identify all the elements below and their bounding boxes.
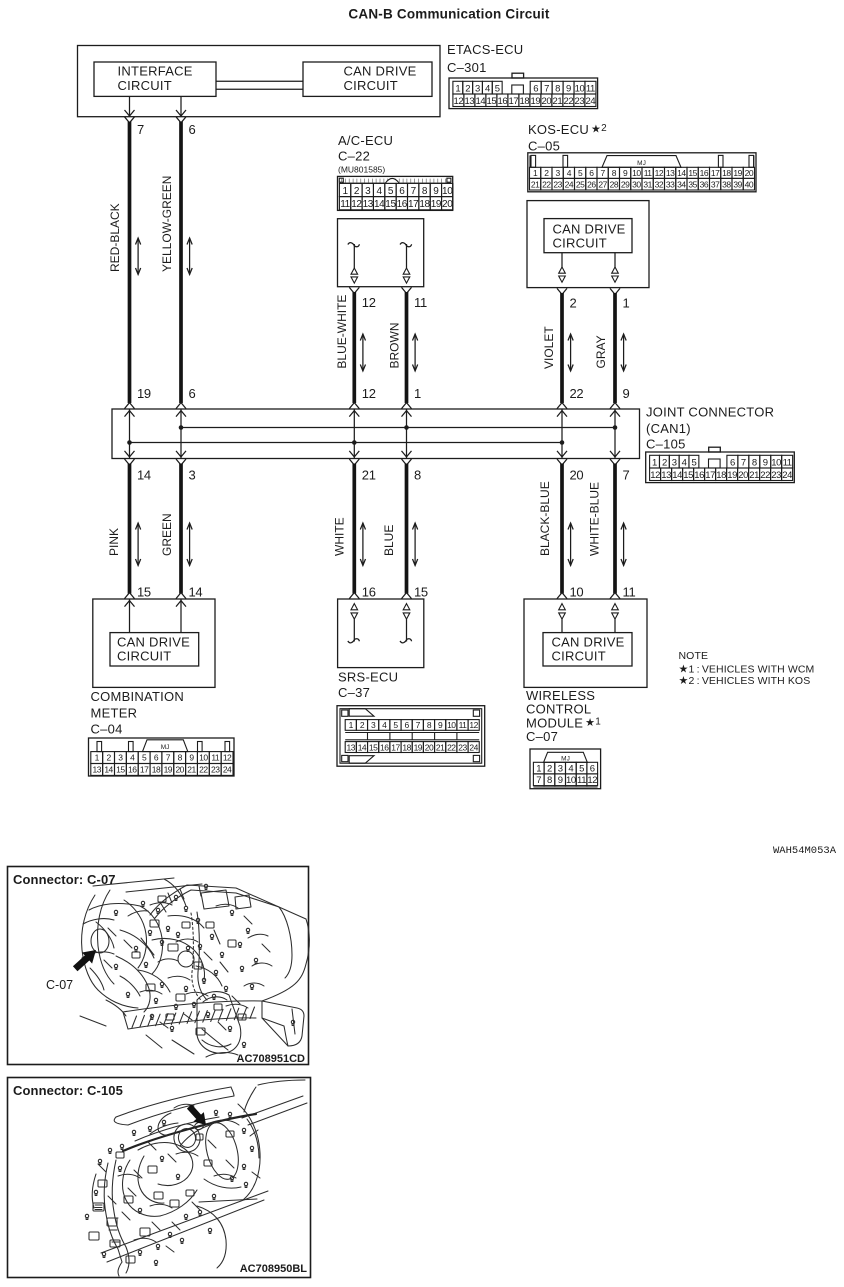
svg-text:18: 18 — [402, 742, 411, 752]
svg-text:9: 9 — [433, 186, 439, 197]
svg-text:CIRCUIT: CIRCUIT — [344, 78, 398, 93]
pin 21 (joint connector bottom) — [349, 459, 375, 483]
connector C-105 pin grid — [646, 447, 795, 482]
svg-text:WHITE-BLUE: WHITE-BLUE — [588, 482, 602, 556]
connector C-04 pin grid — [89, 738, 235, 776]
svg-text:8: 8 — [547, 775, 552, 786]
CAN bus line 1 (inside joint connector) — [179, 425, 618, 430]
svg-text:8: 8 — [422, 186, 428, 197]
svg-text:INTERFACE: INTERFACE — [118, 64, 193, 79]
svg-text:15: 15 — [369, 742, 378, 752]
photo panel Connector: C-105 — [8, 1078, 311, 1278]
svg-text:40: 40 — [745, 179, 754, 189]
termination symbol inside A/C-ECU (11) — [400, 243, 412, 283]
wire into combination meter CAN drive — [176, 599, 186, 633]
svg-text:BROWN: BROWN — [387, 323, 401, 369]
svg-text:5: 5 — [579, 763, 584, 774]
twisted-pair arrow (YELLOW-GREEN) — [187, 238, 192, 275]
svg-text:20: 20 — [175, 765, 184, 775]
CAN drive circuit block (KOS) — [544, 219, 632, 253]
wire label GRAY — [594, 335, 608, 368]
wire GRAY (upper run) — [613, 293, 617, 403]
svg-text:C–05: C–05 — [528, 139, 560, 154]
termination symbol inside A/C-ECU (12) — [348, 243, 360, 283]
svg-text:6: 6 — [730, 457, 735, 468]
wire BLACK-BLUE (lower run) — [560, 464, 564, 594]
wire through joint connector (1 to 8) — [402, 409, 412, 459]
ECU box A/C-ECU — [338, 219, 424, 287]
svg-text:22: 22 — [542, 179, 551, 189]
svg-text:6: 6 — [533, 83, 538, 94]
svg-text:26: 26 — [587, 179, 596, 189]
wire label BLUE-WHITE — [335, 295, 349, 369]
svg-text:4: 4 — [130, 753, 135, 763]
svg-text:32: 32 — [655, 179, 664, 189]
svg-text:15: 15 — [137, 585, 151, 600]
svg-text:12: 12 — [362, 295, 376, 310]
svg-text:24: 24 — [469, 742, 478, 752]
svg-text:9: 9 — [189, 753, 194, 763]
svg-text:11: 11 — [459, 720, 468, 730]
wire label BLACK-BLUE — [538, 481, 552, 556]
connector C-22 pin grid — [338, 176, 454, 210]
twisted-pair arrow (VIOLET) — [568, 334, 573, 371]
label KOS-ECU *2 C-05 — [528, 122, 607, 154]
svg-text:7: 7 — [536, 775, 541, 786]
svg-text:13: 13 — [92, 765, 101, 775]
svg-text:20: 20 — [425, 742, 434, 752]
wire label WHITE-BLUE — [588, 482, 602, 556]
svg-text:36: 36 — [700, 179, 709, 189]
pin 15 (lower module) — [402, 585, 428, 600]
svg-text:11: 11 — [623, 585, 636, 600]
wire through joint connector (6 to 3) — [176, 409, 186, 459]
svg-text:33: 33 — [666, 179, 675, 189]
wire label BLUE — [382, 525, 396, 556]
twisted-pair arrow (WHITE) — [360, 523, 365, 566]
svg-text:2: 2 — [570, 296, 577, 311]
label ETACS-ECU C-301 — [447, 42, 523, 75]
svg-text:22: 22 — [564, 96, 574, 107]
ECU box KOS-ECU — [527, 201, 649, 288]
svg-text:21: 21 — [553, 96, 563, 107]
svg-text:11: 11 — [783, 457, 792, 468]
pin 14 (joint connector bottom) — [125, 459, 151, 483]
dashboard line art (C-07 location) — [80, 878, 309, 1057]
svg-text:22: 22 — [760, 470, 770, 481]
svg-text:11: 11 — [414, 295, 427, 310]
svg-text:8: 8 — [752, 457, 757, 468]
svg-text:(MU801585): (MU801585) — [338, 164, 385, 174]
svg-text:GREEN: GREEN — [160, 513, 174, 556]
svg-text:MJ: MJ — [637, 160, 646, 167]
interface circuit block — [94, 62, 216, 96]
termination symbol inside WCM — [612, 604, 619, 633]
svg-text:BLACK-BLUE: BLACK-BLUE — [538, 481, 552, 556]
connector C-37 pin grid — [337, 706, 485, 767]
svg-text:27: 27 — [598, 179, 607, 189]
svg-text:13: 13 — [666, 168, 675, 178]
svg-text:C–07: C–07 — [526, 729, 558, 744]
svg-text:18: 18 — [152, 765, 161, 775]
pin 20 (joint connector bottom) — [557, 459, 583, 483]
svg-text:13: 13 — [347, 742, 356, 752]
svg-text:19: 19 — [733, 168, 742, 178]
wire label YELLOW-GREEN — [160, 176, 174, 272]
pin 15 (lower module) — [125, 585, 151, 600]
svg-text:11: 11 — [340, 199, 350, 210]
svg-text:10: 10 — [570, 585, 584, 600]
pin 1 (joint connector top) — [402, 386, 422, 409]
svg-text:C–22: C–22 — [338, 149, 370, 164]
svg-text:7: 7 — [137, 122, 144, 137]
svg-text:6: 6 — [399, 186, 405, 197]
svg-text:16: 16 — [700, 168, 709, 178]
svg-text:BLUE-WHITE: BLUE-WHITE — [335, 295, 349, 369]
svg-text:29: 29 — [621, 179, 630, 189]
svg-text:10: 10 — [575, 83, 585, 94]
svg-text:14: 14 — [672, 470, 682, 481]
pin 6 (ETACS-ECU) — [176, 117, 196, 137]
pin 11 (lower module) — [610, 585, 635, 600]
svg-text:2: 2 — [662, 457, 667, 468]
svg-text:1: 1 — [652, 457, 657, 468]
svg-text:YELLOW-GREEN: YELLOW-GREEN — [160, 176, 174, 272]
svg-text:★1 : VEHICLES WITH WCM: ★1 : VEHICLES WITH WCM — [679, 663, 815, 675]
wire through joint connector (19 to 14) — [125, 409, 135, 459]
svg-text:10: 10 — [566, 775, 576, 786]
svg-text:1: 1 — [455, 83, 460, 94]
svg-text:15: 15 — [688, 168, 697, 178]
twisted-pair arrow (BLUE-WHITE) — [360, 334, 365, 371]
svg-text:CIRCUIT: CIRCUIT — [552, 649, 606, 664]
wire label RED-BLACK — [108, 203, 122, 272]
svg-text:COMBINATION: COMBINATION — [91, 689, 185, 704]
svg-text:39: 39 — [733, 179, 742, 189]
svg-text:4: 4 — [682, 457, 687, 468]
wire BLUE (lower run) — [405, 464, 409, 594]
svg-text:14: 14 — [476, 96, 486, 107]
svg-text:5: 5 — [388, 186, 394, 197]
module box SRS-ECU — [338, 599, 424, 668]
svg-text:CIRCUIT: CIRCUIT — [117, 649, 171, 664]
wire through joint connector (9 to 7) — [610, 409, 620, 459]
svg-text:2: 2 — [354, 186, 360, 197]
svg-text:11: 11 — [577, 775, 586, 786]
svg-text:9: 9 — [438, 720, 443, 730]
svg-text:24: 24 — [782, 470, 792, 481]
svg-text:NOTE: NOTE — [679, 650, 709, 662]
svg-text:CIRCUIT: CIRCUIT — [118, 78, 172, 93]
svg-text:35: 35 — [688, 179, 697, 189]
svg-text:15: 15 — [385, 199, 396, 210]
pin 10 (lower module) — [557, 585, 583, 600]
svg-text:1: 1 — [533, 168, 538, 178]
svg-text:25: 25 — [576, 179, 585, 189]
svg-text:6: 6 — [189, 386, 196, 401]
svg-text:BLUE: BLUE — [382, 525, 396, 556]
wire through joint connector (12 to 21) — [349, 409, 359, 459]
connector C-07 pin grid — [530, 749, 601, 789]
svg-text:31: 31 — [643, 179, 652, 189]
svg-text:9: 9 — [558, 775, 563, 786]
svg-text:16: 16 — [128, 765, 137, 775]
svg-text:7: 7 — [166, 753, 171, 763]
termination symbol inside SRS-ECU — [348, 604, 360, 643]
svg-text:C–301: C–301 — [447, 60, 487, 75]
CAN drive circuit block (WCM) — [543, 633, 632, 666]
svg-text:PINK: PINK — [107, 528, 121, 556]
joint connector box C-105 — [112, 409, 640, 459]
svg-text:21: 21 — [436, 742, 445, 752]
svg-text:WAH54M053A: WAH54M053A — [773, 845, 837, 857]
CAN drive circuit block (combination meter) — [110, 633, 199, 666]
pin 3 (joint connector bottom) — [176, 459, 196, 483]
svg-text:6: 6 — [189, 122, 196, 137]
svg-text:CIRCUIT: CIRCUIT — [553, 236, 607, 251]
svg-text:21: 21 — [187, 765, 196, 775]
svg-text:7: 7 — [601, 168, 606, 178]
svg-text:16: 16 — [380, 742, 389, 752]
svg-text:28: 28 — [610, 179, 619, 189]
svg-text:3: 3 — [556, 168, 561, 178]
svg-text:3: 3 — [475, 83, 480, 94]
svg-text:16: 16 — [397, 199, 408, 210]
svg-text:19: 19 — [137, 386, 151, 401]
svg-text:2: 2 — [360, 720, 365, 730]
svg-text:19: 19 — [531, 96, 541, 107]
svg-text:16: 16 — [694, 470, 704, 481]
svg-text:12: 12 — [587, 775, 597, 786]
wire into combination meter CAN drive — [125, 599, 135, 633]
twisted-pair arrow (BLACK-BLUE) — [568, 523, 573, 566]
svg-text:CAN-B Communication Circuit: CAN-B Communication Circuit — [348, 7, 549, 22]
CAN drive circuit block (ETACS) — [303, 62, 432, 96]
svg-text:4: 4 — [485, 83, 490, 94]
svg-text:1: 1 — [414, 386, 421, 401]
note block — [679, 650, 815, 687]
svg-text:RED-BLACK: RED-BLACK — [108, 203, 122, 272]
module box WIRELESS CONTROL MODULE — [524, 599, 647, 687]
svg-text:C–37: C–37 — [338, 685, 370, 700]
svg-text:5: 5 — [495, 83, 500, 94]
wire RED-BLACK (upper run) — [128, 122, 132, 404]
svg-text:8: 8 — [555, 83, 560, 94]
twisted-pair arrow (GRAY) — [621, 334, 626, 371]
svg-text:13: 13 — [661, 470, 671, 481]
svg-text:4: 4 — [382, 720, 387, 730]
svg-text:AC708950BL: AC708950BL — [240, 1263, 308, 1275]
svg-text:VIOLET: VIOLET — [542, 326, 556, 369]
svg-text:3: 3 — [118, 753, 123, 763]
svg-text:18: 18 — [419, 199, 430, 210]
svg-text:21: 21 — [531, 179, 540, 189]
svg-text:19: 19 — [727, 470, 737, 481]
svg-text:6: 6 — [405, 720, 410, 730]
svg-text:8: 8 — [427, 720, 432, 730]
wire GREEN (lower run) — [179, 464, 183, 594]
svg-text:22: 22 — [447, 742, 456, 752]
svg-text:7: 7 — [416, 720, 421, 730]
connector C-301 pin grid — [449, 73, 598, 108]
svg-text:10: 10 — [199, 753, 208, 763]
svg-text:5: 5 — [691, 457, 696, 468]
svg-text:5: 5 — [393, 720, 398, 730]
termination symbol inside KOS-ECU (2) — [559, 253, 566, 283]
svg-text:37: 37 — [711, 179, 720, 189]
ECU box ETACS-ECU outer — [78, 46, 441, 117]
dashboard line art (C-105 location) — [85, 1080, 307, 1276]
svg-text:2: 2 — [465, 83, 470, 94]
svg-text:19: 19 — [414, 742, 423, 752]
svg-text:12: 12 — [362, 386, 376, 401]
svg-text:12: 12 — [223, 753, 232, 763]
svg-text:18: 18 — [722, 168, 731, 178]
svg-text:A/C-ECU: A/C-ECU — [338, 133, 393, 148]
svg-text:19: 19 — [164, 765, 173, 775]
svg-text:6: 6 — [590, 763, 595, 774]
svg-text:13: 13 — [465, 96, 475, 107]
svg-text:9: 9 — [763, 457, 768, 468]
pin 1 (KOS-ECU) — [610, 288, 630, 310]
svg-text:18: 18 — [520, 96, 530, 107]
pin 2 (KOS-ECU) — [557, 288, 577, 310]
svg-text:21: 21 — [362, 468, 376, 483]
svg-text:17: 17 — [408, 199, 419, 210]
photo panel Connector: C-07 — [8, 867, 309, 1065]
svg-text:ETACS-ECU: ETACS-ECU — [447, 42, 523, 57]
svg-text:20: 20 — [542, 96, 552, 107]
svg-text:38: 38 — [722, 179, 731, 189]
pin 6 (joint connector top) — [176, 386, 196, 409]
svg-text:10: 10 — [632, 168, 641, 178]
svg-text:15: 15 — [683, 470, 693, 481]
callout arrow to C-07 — [70, 944, 101, 974]
svg-text:20: 20 — [570, 468, 584, 483]
svg-text:★2 : VEHICLES WITH KOS: ★2 : VEHICLES WITH KOS — [679, 675, 811, 687]
svg-text:3: 3 — [365, 186, 371, 197]
svg-text:24: 24 — [565, 179, 574, 189]
svg-text:Connector: C-07: Connector: C-07 — [13, 872, 116, 887]
pin 19 (joint connector top) — [125, 386, 151, 409]
svg-text:5: 5 — [578, 168, 583, 178]
wire PINK (lower run) — [128, 464, 132, 594]
svg-text:17: 17 — [391, 742, 400, 752]
svg-text:14: 14 — [677, 168, 686, 178]
CAN bus line 2 (inside joint connector) — [127, 440, 564, 445]
svg-text:13: 13 — [363, 199, 374, 210]
svg-text:15: 15 — [487, 96, 497, 107]
svg-text:7: 7 — [411, 186, 417, 197]
svg-text:1: 1 — [349, 720, 354, 730]
svg-text:16: 16 — [498, 96, 508, 107]
svg-text:1: 1 — [95, 753, 100, 763]
wire YELLOW-GREEN (upper run) — [179, 122, 183, 404]
svg-text:12: 12 — [469, 720, 478, 730]
svg-text:9: 9 — [623, 386, 630, 401]
label COMBINATION METER C-04 — [91, 689, 185, 736]
svg-text:6: 6 — [589, 168, 594, 178]
svg-text:3: 3 — [189, 468, 196, 483]
svg-text:8: 8 — [414, 468, 421, 483]
svg-text:MJ: MJ — [161, 744, 170, 751]
twisted-pair arrow (WHITE-BLUE) — [621, 523, 626, 566]
svg-text:22: 22 — [199, 765, 208, 775]
svg-text:14: 14 — [374, 199, 385, 210]
svg-text:2: 2 — [106, 753, 111, 763]
svg-text:14: 14 — [189, 585, 203, 600]
twisted-pair arrow (BROWN) — [413, 334, 418, 371]
svg-text:1: 1 — [342, 186, 348, 197]
svg-text:18: 18 — [716, 470, 726, 481]
svg-text:SRS-ECU: SRS-ECU — [338, 669, 398, 684]
svg-text:14: 14 — [137, 468, 151, 483]
wire label GREEN — [160, 513, 174, 556]
twisted-pair arrow (BLUE) — [413, 523, 418, 566]
wire WHITE-BLUE (lower run) — [613, 464, 617, 594]
svg-text:5: 5 — [142, 753, 147, 763]
svg-text:23: 23 — [553, 179, 562, 189]
label A/C-ECU C-22 (MU801585) — [338, 133, 393, 174]
svg-text:12: 12 — [650, 470, 660, 481]
svg-text:2: 2 — [547, 763, 552, 774]
pin 8 (joint connector bottom) — [402, 459, 422, 483]
wire label BROWN — [387, 323, 401, 369]
svg-text:CAN DRIVE: CAN DRIVE — [553, 222, 626, 237]
pin 12 (joint connector top) — [349, 386, 375, 409]
pin 14 (lower module) — [176, 585, 202, 600]
svg-text:CAN DRIVE: CAN DRIVE — [552, 635, 625, 650]
pin 16 (lower module) — [349, 585, 375, 600]
pin 9 (joint connector top) — [610, 386, 630, 409]
svg-text:C–105: C–105 — [646, 436, 686, 451]
svg-text:7: 7 — [623, 468, 630, 483]
svg-text:9: 9 — [623, 168, 628, 178]
svg-text:11: 11 — [211, 753, 220, 763]
svg-text:12: 12 — [655, 168, 664, 178]
svg-text:23: 23 — [458, 742, 467, 752]
wire BLUE-WHITE (upper run) — [352, 292, 356, 403]
svg-text:4: 4 — [568, 763, 573, 774]
svg-text:30: 30 — [632, 179, 641, 189]
svg-text:10: 10 — [442, 186, 453, 197]
svg-text:3: 3 — [558, 763, 563, 774]
wire VIOLET (upper run) — [560, 293, 564, 403]
wire BROWN (upper run) — [405, 292, 409, 403]
svg-text:12: 12 — [351, 199, 362, 210]
twisted-pair arrow (GREEN) — [187, 523, 192, 566]
label WIRELESS CONTROL MODULE *1 C-07 — [526, 688, 601, 744]
svg-text:16: 16 — [362, 585, 376, 600]
svg-text:20: 20 — [745, 168, 754, 178]
wire pair between interface and CAN drive — [216, 81, 303, 89]
svg-text:Connector: C-105: Connector: C-105 — [13, 1083, 123, 1098]
svg-text:6: 6 — [154, 753, 159, 763]
pin 11 (A/C-ECU) — [402, 287, 427, 310]
svg-text:MJ: MJ — [561, 756, 570, 763]
svg-text:11: 11 — [644, 168, 653, 178]
termination symbol inside WCM — [559, 604, 566, 633]
svg-text:10: 10 — [771, 457, 781, 468]
svg-text:23: 23 — [575, 96, 585, 107]
pin 22 (joint connector top) — [557, 386, 583, 409]
svg-text:17: 17 — [705, 470, 715, 481]
svg-text:22: 22 — [570, 386, 584, 401]
wire from interface circuit pin 7 (inside ETACS box) — [125, 96, 135, 116]
twisted-pair arrow (PINK) — [136, 523, 141, 566]
termination symbol inside KOS-ECU (1) — [612, 253, 619, 283]
wire label PINK — [107, 528, 121, 556]
